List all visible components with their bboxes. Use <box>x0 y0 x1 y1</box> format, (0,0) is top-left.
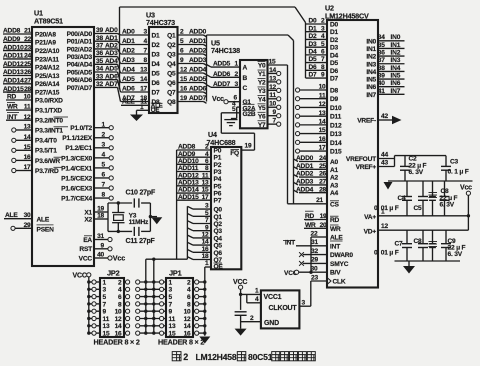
svg-text:D10: D10 <box>330 105 342 112</box>
svg-text:Q0: Q0 <box>214 207 223 214</box>
svg-text:ADD15: ADD15 <box>178 194 199 201</box>
svg-text:1: 1 <box>103 279 107 286</box>
svg-text:31: 31 <box>97 233 104 240</box>
svg-text:29: 29 <box>311 257 318 264</box>
svg-text:Y3: Y3 <box>258 88 266 95</box>
svg-text:D3: D3 <box>330 45 339 52</box>
svg-text:26: 26 <box>319 171 326 178</box>
svg-text:ADD3: ADD3 <box>189 57 207 64</box>
svg-text:D13: D13 <box>330 131 342 138</box>
svg-text:2: 2 <box>180 29 184 36</box>
svg-text:5: 5 <box>103 294 107 301</box>
svg-text:13: 13 <box>169 323 176 330</box>
svg-text:2: 2 <box>187 279 191 286</box>
svg-text:ADD2: ADD2 <box>189 48 207 55</box>
svg-text:10: 10 <box>24 94 31 101</box>
svg-text:D15: D15 <box>330 149 342 156</box>
svg-text:8: 8 <box>205 165 209 172</box>
svg-text:D1: D1 <box>309 25 318 32</box>
svg-text:P06/AD6: P06/AD6 <box>67 77 93 84</box>
svg-text:Vcc: Vcc <box>460 184 472 191</box>
svg-text:39: 39 <box>96 27 103 34</box>
svg-text:9: 9 <box>101 242 105 249</box>
svg-text:D5: D5 <box>152 70 161 77</box>
svg-text:6. 3V: 6. 3V <box>448 251 463 258</box>
svg-text:ADD9: ADD9 <box>178 151 196 158</box>
svg-text:Y6: Y6 <box>258 113 266 120</box>
svg-text:CS: CS <box>330 202 340 209</box>
svg-text:P24/A12: P24/A12 <box>35 65 60 72</box>
svg-text:IN1: IN1 <box>391 42 401 49</box>
svg-text:D2: D2 <box>330 37 339 44</box>
svg-text:1: 1 <box>205 260 209 267</box>
svg-text:7: 7 <box>273 118 277 125</box>
svg-text:P25/A13: P25/A13 <box>35 73 60 80</box>
svg-text:11: 11 <box>202 172 209 179</box>
svg-text:3: 3 <box>302 300 306 307</box>
svg-text:9: 9 <box>169 309 173 316</box>
svg-text:14: 14 <box>140 76 147 83</box>
svg-text:P02/AD2: P02/AD2 <box>67 46 93 53</box>
svg-text:ALE: ALE <box>5 212 18 219</box>
svg-text:ADD4: ADD4 <box>189 67 207 74</box>
svg-text:INT: INT <box>330 243 340 250</box>
svg-text:15: 15 <box>24 144 31 151</box>
svg-text:P3.4/T0: P3.4/T0 <box>35 138 57 145</box>
svg-text:3: 3 <box>144 29 148 36</box>
svg-text:D3: D3 <box>152 51 161 58</box>
svg-text:IN1: IN1 <box>366 46 376 53</box>
svg-text:20: 20 <box>320 222 327 229</box>
svg-text:10: 10 <box>115 309 122 316</box>
svg-text:AD5: AD5 <box>122 76 135 83</box>
svg-text:29: 29 <box>24 222 31 229</box>
svg-text:22: 22 <box>24 36 31 43</box>
svg-text:13: 13 <box>140 67 147 74</box>
svg-text:6: 6 <box>102 172 106 179</box>
svg-text:Q6: Q6 <box>214 250 223 257</box>
svg-text:P1.0/T2: P1.0/T2 <box>70 125 92 132</box>
svg-text:2: 2 <box>321 18 325 25</box>
svg-text:JP1: JP1 <box>169 269 182 278</box>
svg-text:11: 11 <box>103 316 110 323</box>
svg-text:9: 9 <box>273 109 277 116</box>
svg-text:4: 4 <box>102 151 106 158</box>
svg-text:AD1: AD1 <box>122 38 135 45</box>
svg-text:22: 22 <box>311 230 318 237</box>
svg-text:IN6: IN6 <box>366 84 376 91</box>
svg-text:15: 15 <box>103 331 110 338</box>
svg-text:16: 16 <box>202 246 209 253</box>
svg-text:IN5: IN5 <box>366 77 376 84</box>
svg-text:Y2: Y2 <box>258 80 266 87</box>
svg-text:P20/A8: P20/A8 <box>35 31 56 38</box>
svg-text:P3.6/WR: P3.6/WR <box>35 158 60 165</box>
svg-text:14: 14 <box>202 239 209 246</box>
svg-text:17: 17 <box>202 194 209 201</box>
svg-text:0. 1 μ F: 0. 1 μ F <box>448 168 469 175</box>
svg-text:D7: D7 <box>152 89 161 96</box>
svg-text:16: 16 <box>24 154 31 161</box>
svg-text:VCC: VCC <box>79 255 93 262</box>
svg-text:Vcc: Vcc <box>113 254 125 263</box>
svg-text:8: 8 <box>144 57 148 64</box>
svg-text:P1: P1 <box>214 155 222 162</box>
svg-text:26: 26 <box>24 69 31 76</box>
svg-text:0. 01 μ F: 0. 01 μ F <box>374 250 399 257</box>
svg-text:Q1: Q1 <box>167 32 176 39</box>
svg-text:16: 16 <box>184 331 191 338</box>
svg-text:D5: D5 <box>330 60 339 67</box>
svg-text:7: 7 <box>205 217 209 224</box>
svg-text:D6: D6 <box>330 68 339 75</box>
svg-text:ADD13: ADD13 <box>3 69 24 76</box>
svg-text:P23/A11: P23/A11 <box>35 56 59 63</box>
svg-text:P4: P4 <box>214 176 222 183</box>
svg-text:1: 1 <box>169 279 173 286</box>
svg-text:19: 19 <box>245 142 252 149</box>
svg-text:P3.7/RD: P3.7/RD <box>35 168 59 175</box>
svg-text:11MHz: 11MHz <box>129 219 149 226</box>
svg-text:ADD1: ADD1 <box>296 163 314 170</box>
svg-text:27: 27 <box>24 78 31 85</box>
svg-text:14: 14 <box>319 118 326 125</box>
svg-text:VREF-: VREF- <box>357 118 376 125</box>
svg-text:P3: P3 <box>214 169 222 176</box>
svg-text:WR: WR <box>330 226 341 233</box>
svg-text:ADD11: ADD11 <box>178 165 199 172</box>
svg-text:3: 3 <box>321 25 325 32</box>
svg-text:23: 23 <box>24 44 31 51</box>
svg-text:VD+: VD+ <box>364 228 377 235</box>
svg-text:VCC1: VCC1 <box>264 294 282 301</box>
svg-text:ADD10: ADD10 <box>3 44 24 51</box>
svg-text:P5: P5 <box>214 183 222 190</box>
svg-text:30: 30 <box>24 212 31 219</box>
svg-text:P00/AD0: P00/AD0 <box>67 31 93 38</box>
svg-text:7: 7 <box>144 48 148 55</box>
svg-text:P26/A14: P26/A14 <box>35 81 60 88</box>
svg-text:28: 28 <box>24 86 31 93</box>
svg-text:Y0: Y0 <box>258 63 266 70</box>
svg-text:34: 34 <box>378 34 385 41</box>
svg-text:13: 13 <box>319 110 326 117</box>
svg-text:4: 4 <box>255 296 259 303</box>
svg-text:3: 3 <box>235 81 239 88</box>
svg-text:P1.5/CEX2: P1.5/CEX2 <box>61 175 92 182</box>
svg-text:Q7: Q7 <box>167 89 176 96</box>
svg-text:WR: WR <box>7 104 18 111</box>
svg-text:15: 15 <box>319 127 326 134</box>
svg-text:Y7: Y7 <box>258 122 266 129</box>
svg-text:C10 27pF: C10 27pF <box>126 190 156 197</box>
svg-text:D3: D3 <box>309 41 318 48</box>
svg-text:PSEN: PSEN <box>37 226 55 233</box>
svg-text:8: 8 <box>187 301 191 308</box>
svg-text:2: 2 <box>250 315 254 322</box>
svg-text:P1.7/CEX4: P1.7/CEX4 <box>61 195 92 202</box>
svg-text:P21/A9: P21/A9 <box>35 40 56 47</box>
svg-text:ADD8: ADD8 <box>178 144 196 151</box>
svg-text:RST: RST <box>79 246 92 253</box>
svg-text:5: 5 <box>205 210 209 217</box>
svg-text:D7: D7 <box>309 72 318 79</box>
svg-text:39: 39 <box>378 72 385 79</box>
svg-text:ADD12: ADD12 <box>178 172 199 179</box>
svg-text:12: 12 <box>269 84 276 91</box>
svg-text:ALE: ALE <box>330 235 343 242</box>
svg-text:A2: A2 <box>330 175 339 182</box>
svg-text:9: 9 <box>103 309 107 316</box>
svg-text:P1.6/CEX3: P1.6/CEX3 <box>61 185 92 192</box>
svg-text:16: 16 <box>180 86 187 93</box>
svg-text:C5: C5 <box>414 205 423 212</box>
svg-text:AD6: AD6 <box>122 86 135 93</box>
svg-text:D9: D9 <box>330 96 339 103</box>
svg-text:16: 16 <box>319 136 326 143</box>
svg-text:6. 3V: 6. 3V <box>440 201 455 208</box>
svg-text:IN4: IN4 <box>391 65 401 72</box>
svg-text:AD3: AD3 <box>122 57 135 64</box>
svg-text:C4: C4 <box>398 195 407 202</box>
svg-text:10: 10 <box>184 309 191 316</box>
svg-text:Q2: Q2 <box>214 221 223 228</box>
svg-text:P27/A15: P27/A15 <box>35 90 60 97</box>
svg-text:43: 43 <box>381 160 388 167</box>
svg-text:2: 2 <box>235 71 239 78</box>
svg-text:3: 3 <box>103 287 107 294</box>
svg-text:ADD9: ADD9 <box>3 36 21 43</box>
svg-text:AD1: AD1 <box>105 35 118 42</box>
svg-text:23: 23 <box>311 274 318 281</box>
svg-text:IN6: IN6 <box>391 80 401 87</box>
svg-text:AD0: AD0 <box>122 29 135 36</box>
svg-text:VREFOUT: VREFOUT <box>346 156 376 163</box>
svg-text:Q8: Q8 <box>167 99 176 106</box>
svg-text:Q3: Q3 <box>167 51 176 58</box>
svg-text:14: 14 <box>115 323 122 330</box>
svg-text:19: 19 <box>180 95 187 102</box>
svg-text:Q3: Q3 <box>214 228 223 235</box>
svg-text:12: 12 <box>202 232 209 239</box>
svg-text:10: 10 <box>319 84 326 91</box>
svg-text:9: 9 <box>205 224 209 231</box>
svg-text:JP2: JP2 <box>107 269 120 278</box>
svg-text:6: 6 <box>187 294 191 301</box>
svg-text:VA+: VA+ <box>364 214 376 221</box>
svg-text:Q2: Q2 <box>167 42 176 49</box>
svg-text:80C51: 80C51 <box>248 352 273 362</box>
svg-text:ADD11: ADD11 <box>3 53 24 60</box>
svg-text:P22/A10: P22/A10 <box>35 48 60 55</box>
svg-text:1: 1 <box>235 61 239 68</box>
svg-text:D6: D6 <box>152 80 161 87</box>
svg-text:27: 27 <box>319 179 326 186</box>
svg-text:ADD10: ADD10 <box>178 158 199 165</box>
svg-text:ADD3: ADD3 <box>296 179 314 186</box>
svg-text:19: 19 <box>97 206 104 213</box>
svg-text:33: 33 <box>96 73 103 80</box>
svg-text:18: 18 <box>97 213 104 220</box>
svg-text:EA: EA <box>83 237 92 244</box>
svg-text:IN2: IN2 <box>391 50 401 57</box>
svg-text:7: 7 <box>169 301 173 308</box>
svg-text:37: 37 <box>378 57 385 64</box>
svg-text:12: 12 <box>180 67 187 74</box>
svg-text:ADD0: ADD0 <box>189 29 207 36</box>
svg-text:9: 9 <box>180 57 184 64</box>
svg-text:ADD12: ADD12 <box>3 61 24 68</box>
svg-text:15: 15 <box>169 331 176 338</box>
svg-text:12: 12 <box>24 114 31 121</box>
svg-text:13: 13 <box>202 179 209 186</box>
svg-text:CLKOUT: CLKOUT <box>269 305 298 312</box>
svg-text:6: 6 <box>118 294 122 301</box>
svg-text:25: 25 <box>24 61 31 68</box>
svg-text:5: 5 <box>102 162 106 169</box>
svg-text:40: 40 <box>378 80 385 87</box>
svg-text:11: 11 <box>269 92 276 99</box>
svg-text:13: 13 <box>269 75 276 82</box>
svg-text:12: 12 <box>184 316 191 323</box>
svg-text:VCC: VCC <box>73 272 87 279</box>
svg-text:P1.1/12EX: P1.1/12EX <box>62 135 93 142</box>
svg-text:ADD4: ADD4 <box>296 186 314 193</box>
svg-text:D5: D5 <box>309 56 318 63</box>
svg-text:AD4: AD4 <box>122 67 135 74</box>
svg-text:IN7: IN7 <box>391 88 401 95</box>
svg-text:17: 17 <box>140 86 147 93</box>
svg-text:D12: D12 <box>330 122 342 129</box>
svg-text:P04/AD4: P04/AD4 <box>67 62 93 69</box>
svg-text:ADD5: ADD5 <box>213 61 231 68</box>
svg-text:44: 44 <box>381 152 388 159</box>
svg-text:LM12H458CV: LM12H458CV <box>325 12 369 21</box>
svg-text:D4: D4 <box>330 52 339 59</box>
svg-text:36: 36 <box>378 50 385 57</box>
svg-text:IN0: IN0 <box>391 34 401 41</box>
svg-text:AD4: AD4 <box>105 58 118 65</box>
svg-text:11: 11 <box>169 316 176 323</box>
svg-text:2: 2 <box>118 279 122 286</box>
svg-text:P05/AD5: P05/AD5 <box>67 69 93 76</box>
svg-text:D14: D14 <box>330 140 342 147</box>
svg-text:P3.0/RXD: P3.0/RXD <box>35 97 63 104</box>
svg-text:8: 8 <box>102 192 106 199</box>
svg-text:B/V: B/V <box>330 270 341 277</box>
svg-text:P1.2/EC1: P1.2/EC1 <box>65 145 92 152</box>
svg-text:17: 17 <box>319 145 326 152</box>
svg-text:A0: A0 <box>330 159 339 166</box>
svg-text:AD2: AD2 <box>105 43 118 50</box>
svg-text:D0: D0 <box>309 18 318 25</box>
svg-text:ADD0: ADD0 <box>296 155 314 162</box>
svg-text:D2: D2 <box>152 42 161 49</box>
svg-text:C: C <box>243 85 248 92</box>
svg-text:35: 35 <box>378 42 385 49</box>
svg-text:P3.2/INT0: P3.2/INT0 <box>35 118 63 125</box>
svg-text:P07/AD7: P07/AD7 <box>67 85 93 92</box>
svg-text:SMYC: SMYC <box>330 261 349 268</box>
svg-text:ADD5: ADD5 <box>189 76 207 83</box>
svg-text:D2: D2 <box>309 33 318 40</box>
svg-text:A: A <box>243 65 248 72</box>
svg-text:2: 2 <box>183 352 188 362</box>
svg-text:P1.3/CEX0: P1.3/CEX0 <box>61 155 92 162</box>
svg-text:IN5: IN5 <box>391 72 401 79</box>
svg-text:RD: RD <box>305 213 315 220</box>
svg-text:14: 14 <box>24 134 31 141</box>
svg-text:1: 1 <box>140 104 144 111</box>
svg-text:C11 27pF: C11 27pF <box>126 238 156 245</box>
svg-text:8: 8 <box>118 301 122 308</box>
svg-text:Vcc: Vcc <box>212 96 224 103</box>
svg-text:P3.5/T1: P3.5/T1 <box>35 148 57 155</box>
svg-text:14: 14 <box>184 323 191 330</box>
svg-text:38: 38 <box>96 35 103 42</box>
svg-text:15: 15 <box>202 187 209 194</box>
svg-text:15: 15 <box>180 76 187 83</box>
svg-text:ADD14: ADD14 <box>3 78 24 85</box>
svg-text:ADD13: ADD13 <box>178 179 199 186</box>
svg-text:4: 4 <box>205 151 209 158</box>
svg-text:24: 24 <box>319 155 326 162</box>
svg-text:ADD6: ADD6 <box>213 71 231 78</box>
svg-text:AD3: AD3 <box>105 50 118 57</box>
svg-text:P7: P7 <box>214 198 222 205</box>
svg-text:9: 9 <box>321 72 325 79</box>
svg-text:21: 21 <box>316 197 323 204</box>
svg-text:C7: C7 <box>395 240 404 247</box>
svg-text:34: 34 <box>96 66 103 73</box>
svg-text:X2: X2 <box>84 216 92 223</box>
svg-text:IN0: IN0 <box>366 38 376 45</box>
svg-text:5: 5 <box>232 106 236 113</box>
svg-text:P3.3/INT1: P3.3/INT1 <box>35 127 63 134</box>
svg-text:Y4: Y4 <box>258 96 266 103</box>
svg-text:7: 7 <box>102 182 106 189</box>
svg-text:D7: D7 <box>330 76 339 83</box>
svg-text:ADD7: ADD7 <box>189 95 207 102</box>
svg-text:WR: WR <box>305 222 316 229</box>
svg-text:D0: D0 <box>330 22 339 29</box>
svg-text:6: 6 <box>180 48 184 55</box>
svg-text:36: 36 <box>96 50 103 57</box>
svg-text:Q1: Q1 <box>214 214 223 221</box>
svg-text:42: 42 <box>381 113 388 120</box>
svg-text:RD: RD <box>330 217 340 224</box>
svg-text:12: 12 <box>115 316 122 323</box>
svg-text:ADD14: ADD14 <box>178 187 199 194</box>
svg-text:C3: C3 <box>450 159 459 166</box>
svg-text:5: 5 <box>169 294 173 301</box>
svg-text:AD2: AD2 <box>122 48 135 55</box>
svg-text:P03/AD3: P03/AD3 <box>67 54 93 61</box>
svg-text:IN4: IN4 <box>366 69 376 76</box>
svg-text:32: 32 <box>96 81 103 88</box>
svg-text:VREF+: VREF+ <box>356 164 377 171</box>
svg-text:AD7: AD7 <box>105 81 118 88</box>
svg-text:D4: D4 <box>309 48 318 55</box>
svg-text:X1: X1 <box>84 209 92 216</box>
svg-text:FQ: FQ <box>230 150 239 157</box>
svg-text:6. 3V: 6. 3V <box>409 169 424 176</box>
svg-text:P01/AD1: P01/AD1 <box>67 39 93 46</box>
svg-text:17: 17 <box>24 164 31 171</box>
svg-text:4: 4 <box>144 38 148 45</box>
svg-text:RD: RD <box>7 94 17 101</box>
svg-text:1: 1 <box>255 288 259 295</box>
